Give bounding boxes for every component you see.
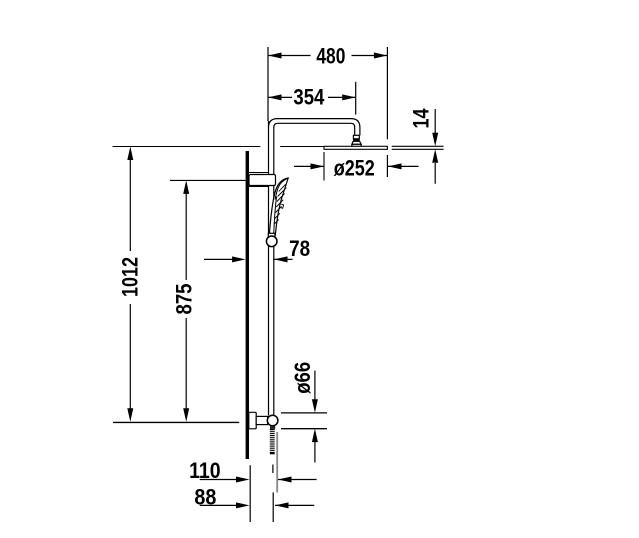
- dimension line o252 right: [387, 165, 418, 167]
- arrow 78 left: [232, 256, 246, 262]
- shower arm outer contour: [269, 119, 360, 136]
- dimension line 110 right: [278, 479, 317, 481]
- arrow 354 left: [268, 94, 282, 100]
- arrow 14 down: [432, 133, 438, 147]
- o66 dimension line: [314, 371, 316, 400]
- svg-text:ø66: ø66: [290, 362, 315, 394]
- svg-text:78: 78: [289, 236, 310, 261]
- holder connector: [268, 233, 275, 237]
- arrow 88 left: [236, 502, 250, 508]
- extension line 110 gray: [276, 432, 278, 493]
- wall face extension line bottom: [249, 465, 251, 522]
- svg-text:354: 354: [293, 84, 325, 109]
- dimension line 78 right: [274, 258, 293, 260]
- arrow 480 left: [268, 53, 282, 59]
- extension line right 354: [355, 82, 357, 115]
- arrow 875 up: [183, 180, 189, 194]
- svg-text:88: 88: [194, 484, 216, 509]
- arrow 875 down: [183, 408, 189, 422]
- arrow o252 right: [388, 163, 402, 169]
- bracket lower line: [249, 186, 269, 188]
- arrow o66 up: [312, 429, 318, 443]
- svg-text:110: 110: [189, 458, 221, 483]
- extension line left (480/354): [267, 47, 269, 121]
- bracket upper line: [249, 172, 269, 174]
- dimension line 88 left: [200, 504, 240, 506]
- dimension line 480: [268, 55, 311, 57]
- svg-text:14: 14: [408, 108, 433, 129]
- holder circle: [266, 236, 277, 247]
- dimension line 78 left: [204, 258, 236, 260]
- arrow 1012 up: [127, 147, 133, 161]
- svg-text:1012: 1012: [117, 257, 142, 297]
- arrow 480 right: [374, 53, 388, 59]
- extension line right 480: [386, 47, 388, 139]
- arrow 1012 down: [127, 408, 133, 422]
- wall: [246, 151, 249, 459]
- reference line 875 top: [170, 179, 246, 181]
- hand shower hatching: [274, 184, 286, 224]
- slide bar pipe right line: [273, 127, 275, 416]
- arrow 88 right: [275, 502, 289, 508]
- dimension line 354: [268, 96, 292, 98]
- shower arm inner contour: [274, 123, 355, 135]
- shower head disc: [324, 146, 387, 149]
- hose centerline lower: [272, 492, 274, 522]
- disc top line right: [392, 145, 444, 147]
- valve knob: [267, 415, 278, 426]
- arrow 14 up: [432, 149, 438, 163]
- o66 extension line top: [281, 412, 327, 414]
- dimension line 875: [185, 193, 187, 280]
- svg-text:480: 480: [316, 44, 345, 69]
- ceiling reference line left: [113, 146, 261, 148]
- valve body: [256, 416, 268, 424]
- arrow o66 down: [312, 399, 318, 413]
- o66 extension line bottom: [281, 428, 327, 430]
- svg-text:ø252: ø252: [334, 156, 375, 181]
- hand shower: [269, 178, 288, 235]
- disc bottom line right: [392, 148, 444, 150]
- bracket body: [249, 175, 276, 186]
- head connector base: [352, 144, 361, 146]
- valve escutcheon: [249, 412, 256, 429]
- head connector ring: [353, 135, 359, 139]
- dimension line 110 left: [200, 479, 240, 481]
- extension line o252 left: [323, 152, 325, 181]
- head connector flare: [352, 141, 361, 144]
- hose nut: [270, 426, 275, 429]
- svg-text:875: 875: [172, 284, 197, 315]
- arrow 78 right: [274, 256, 288, 262]
- arrow 354 right: [342, 94, 356, 100]
- dimension line 14: [434, 109, 436, 133]
- arrow 110 right: [278, 477, 292, 483]
- bottom reference line: [113, 421, 239, 423]
- head connector dark band: [353, 139, 360, 142]
- hose centerline dash: [272, 465, 274, 474]
- flexible hose ribbed: [270, 429, 276, 455]
- dimension line 88 right: [275, 504, 314, 506]
- dimension line o252 left: [294, 165, 324, 167]
- arrow o252 left: [311, 163, 325, 169]
- slide bar pipe left line: [268, 127, 270, 416]
- dimension line 1012: [129, 159, 131, 251]
- arrow 110 left: [236, 477, 250, 483]
